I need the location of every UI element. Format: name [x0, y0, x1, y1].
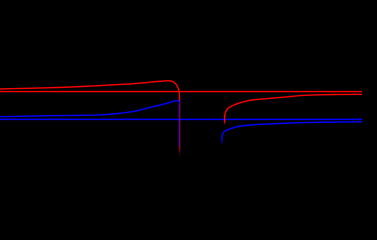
blue curve left plunge (overlaps red, purple blend)	[178, 102, 180, 145]
red curve left branch	[0, 81, 180, 146]
red curve left plunge fading tail	[179, 146, 181, 159]
red asymptote line	[0, 91, 362, 93]
blue curve right branch fading tail	[221, 140, 223, 145]
blue asymptote line	[0, 118, 362, 120]
red curve right branch fading tail	[224, 121, 226, 125]
blue curve left plunge fading tail	[178, 145, 180, 149]
red curve right branch	[225, 94, 362, 122]
blue curve left branch	[0, 101, 179, 117]
blue curve right branch	[222, 122, 362, 141]
